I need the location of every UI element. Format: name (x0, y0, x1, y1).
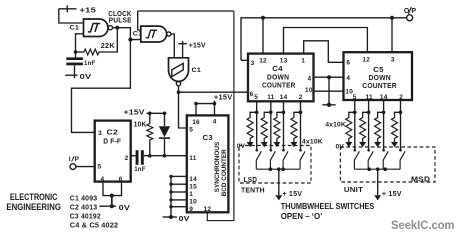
svg-text:+15V: +15V (214, 95, 233, 102)
svg-text:+15V: +15V (189, 43, 206, 50)
wire clock to gate2 (117, 28, 141, 40)
caption parts list (70, 193, 119, 229)
svg-text:2: 2 (299, 94, 303, 101)
ground 0V C3 bus (163, 214, 190, 223)
switch LSD 1 (255, 149, 261, 169)
label C1 gate1 (70, 25, 80, 32)
label C2 pins and name (98, 130, 129, 183)
resistor 10K C4 bank 2 (261, 112, 271, 140)
resistor 22K feedback (76, 30, 118, 55)
svg-text:D F-F: D F-F (103, 137, 121, 146)
node pin4 junction (327, 75, 331, 79)
wire cap node to C3 pin11 (150, 155, 187, 157)
node preset 10 (169, 198, 172, 201)
svg-text:C5: C5 (373, 67, 384, 74)
wire gate2 enable rail (138, 10, 234, 12)
node LSD rail a (269, 167, 273, 171)
wire gate3 output down (179, 86, 187, 128)
svg-text:3: 3 (391, 56, 395, 63)
svg-text:C2: C2 (107, 130, 119, 137)
ic C5 box (344, 52, 413, 100)
label 4x10K C5 bank (325, 122, 346, 129)
wire rail to C4 pin3 (241, 59, 248, 61)
caption thumbwheel switches (281, 201, 375, 221)
ground arrow C5 resistor 1 (345, 141, 352, 148)
svg-text:11: 11 (189, 155, 196, 162)
wire gate1 lower input (76, 34, 84, 52)
svg-text:C1: C1 (192, 67, 202, 74)
svg-text:2: 2 (125, 155, 129, 162)
ground 0V oscillator (65, 72, 91, 81)
label synchronous bcd counter vertical (214, 141, 228, 196)
svg-text:3: 3 (98, 130, 102, 137)
wire C4 bottom pin 4 down (300, 101, 302, 149)
dashed box LSD thumbwheel (239, 146, 311, 184)
node gate3 output junction (177, 90, 181, 94)
wire output rail (241, 18, 407, 61)
svg-text:3: 3 (251, 60, 255, 67)
svg-text:13: 13 (280, 57, 288, 64)
svg-text:MSD: MSD (411, 175, 431, 184)
node rail C5 pin3 (390, 16, 394, 20)
svg-text:P: P (75, 156, 80, 163)
node C5 pull junction 4 (399, 111, 403, 115)
svg-text:2: 2 (399, 94, 403, 101)
svg-text:0V: 0V (80, 72, 92, 81)
svg-text:COUNTER: COUNTER (262, 82, 296, 89)
node MSD rail a (367, 167, 371, 171)
wire C5 bottom pin 2 down (368, 100, 370, 150)
svg-text:C4 & C5 4022: C4 & C5 4022 (70, 221, 119, 230)
wire C4 bottom pin 3 down (283, 101, 285, 149)
power +15 supply terminal (59, 5, 96, 14)
svg-text:I: I (69, 156, 71, 163)
svg-text:1nF: 1nF (134, 166, 146, 173)
wire C3 preset bus (171, 176, 187, 217)
dashed box MSD thumbwheel (340, 147, 435, 182)
wire gate2 output to gate3 (171, 34, 174, 58)
capacitor C 1nF oscillator (66, 52, 83, 75)
node preset 15 (169, 183, 172, 186)
diode D1 (159, 113, 170, 155)
svg-text:4: 4 (346, 75, 350, 82)
wire C5 bottom pin 4 down (400, 100, 402, 150)
svg-text:0V: 0V (237, 143, 246, 150)
svg-text:14: 14 (280, 94, 288, 101)
node preset 9 (169, 205, 172, 208)
svg-text:OPEN – ‘O’: OPEN – ‘O’ (281, 211, 323, 221)
resistor 10K C4 bank 1 (247, 112, 257, 140)
svg-text:6: 6 (250, 91, 254, 98)
label 22K (101, 43, 115, 50)
node C5 pull junction 1 (353, 111, 357, 115)
wire C4 pin12 up (262, 18, 264, 54)
wire C5 bottom pin 1 down (354, 100, 356, 150)
node C4 pull junction 2 (269, 111, 273, 115)
node 10K top (148, 112, 152, 116)
svg-text:P: P (411, 8, 416, 15)
svg-text:ELECTRONIC: ELECTRONIC (10, 192, 58, 202)
label CLOCK PULSE (108, 9, 132, 25)
wire C5 bottom pin 3 down (383, 100, 385, 150)
wire rail to gate2 upper input (138, 11, 141, 30)
svg-text:TENTH: TENTH (241, 185, 265, 194)
svg-text:11: 11 (267, 94, 274, 101)
svg-text:C1: C1 (133, 31, 143, 38)
switch MSD 1 (354, 149, 360, 169)
switch LSD 4 (299, 149, 305, 169)
resistor 10K C5 bank 2 (360, 112, 369, 140)
svg-text:22K: 22K (101, 43, 115, 50)
svg-text:C2 4013: C2 4013 (70, 203, 98, 212)
svg-text:12: 12 (259, 57, 267, 64)
svg-text:UNIT: UNIT (344, 185, 363, 194)
wire LSD common rail (256, 168, 300, 170)
svg-text:THUMBWHEEL SWITCHES: THUMBWHEEL SWITCHES (281, 201, 375, 211)
node diode top (163, 112, 167, 116)
label TENTH (241, 185, 265, 194)
svg-text:DOWN: DOWN (267, 74, 289, 81)
label 1nF oscillator (84, 60, 96, 67)
switch MSD 2 (367, 149, 373, 169)
node rail C4 pin12 (261, 16, 265, 20)
svg-text:1nF: 1nF (84, 60, 96, 67)
svg-text:C1: C1 (70, 25, 80, 32)
svg-text:12: 12 (362, 56, 370, 63)
ground arrow C5 resistor 4 (391, 141, 398, 148)
wire C5 pin3 up (391, 18, 393, 52)
svg-text:SeekIC.com: SeekIC.com (391, 218, 455, 232)
resistor 10K (147, 113, 153, 155)
svg-text:+ 15V: + 15V (282, 189, 302, 198)
svg-text:C1 4093: C1 4093 (70, 193, 98, 202)
node C5 pull junction 3 (382, 111, 386, 115)
node C4 pull junction 4 (299, 111, 303, 115)
terminal O/P output (404, 7, 417, 21)
power +15V tick gate3 (178, 41, 206, 58)
ground arrow C4 resistor 3 (273, 141, 280, 148)
svg-text:5: 5 (98, 164, 102, 171)
nand gate U1a (C1 4093 schmitt) (84, 19, 113, 37)
node C2 ground junction (110, 194, 114, 198)
label 0V C5 bank (336, 143, 345, 150)
node gate2 input junction (128, 38, 132, 42)
label 10K (134, 121, 147, 128)
svg-text:11: 11 (366, 94, 373, 101)
wire C3 carry pin12 feedback (207, 11, 234, 221)
label C1 gate2 (133, 31, 143, 38)
resistor 10K C5 bank 3 (375, 112, 384, 140)
node MSD rail c (383, 167, 387, 171)
resistor 10K C4 bank 4 (291, 112, 301, 140)
svg-text:C3 40192: C3 40192 (70, 211, 101, 220)
label 0V C4 bank (237, 143, 246, 150)
wire I/P to C2 pin5 (76, 166, 95, 168)
ground arrow C4 resistor 4 (290, 141, 297, 148)
wire C4 pin4 to C5 pin4 (314, 76, 344, 78)
node clock pulse (115, 26, 119, 30)
wire +15 to gate input (59, 9, 84, 23)
resistor 10K C5 bank 1 (346, 112, 355, 140)
node MSD rail b (376, 167, 380, 171)
switch MSD 3 (382, 149, 388, 169)
capacitor 1nF at C2 pin2 (131, 150, 150, 165)
svg-text:10: 10 (189, 199, 197, 206)
svg-text:+ 15V: + 15V (382, 189, 402, 198)
svg-text:16: 16 (192, 119, 200, 126)
wire C4 pin1 to C5 pin6 (304, 41, 344, 63)
label C5 pins and name (345, 56, 403, 101)
switch LSD 3 (282, 149, 288, 169)
wire clock to C2 pin3 (72, 40, 131, 133)
node 10K bottom (148, 154, 152, 158)
nand gate U1c (C1) vertical (169, 58, 189, 86)
power +15V LSD (275, 169, 302, 200)
svg-text:6: 6 (119, 176, 123, 183)
nand gate U1b (C1) (141, 26, 171, 42)
resistor 10K C5 bank 4 (392, 112, 401, 140)
svg-text:+15: +15 (80, 5, 97, 14)
svg-text:C4: C4 (272, 66, 283, 73)
svg-text:10K: 10K (134, 121, 147, 128)
wire C4 pin10 to C5 pin10 (314, 90, 344, 92)
ic C3 box (187, 115, 229, 212)
svg-text:15: 15 (189, 184, 197, 191)
ground arrow C4 resistor 1 (247, 141, 254, 148)
ground 0V below C2 (99, 203, 130, 212)
ic C2 D-FF box (95, 121, 131, 182)
label LSD (244, 175, 258, 184)
svg-text:4x10K: 4x10K (325, 122, 346, 129)
wire +15V horizontal (147, 112, 165, 114)
svg-text:5: 5 (254, 94, 258, 101)
ground arrow C5 resistor 2 (359, 141, 366, 148)
wire C2 pins 4 6 to ground (103, 182, 122, 206)
label MSD (411, 175, 431, 184)
terminal tick mid (322, 103, 335, 107)
wire pin4 junction down (328, 77, 330, 105)
svg-text:1: 1 (189, 191, 193, 198)
svg-text:C3: C3 (203, 135, 214, 142)
watermark SeekIC.com (391, 218, 455, 232)
label 4x10K C4 bank (302, 138, 323, 145)
label 1nF at C2 (134, 166, 146, 173)
ground arrow C4 resistor 2 (261, 141, 268, 148)
svg-text:PULSE: PULSE (109, 16, 132, 25)
svg-text:4: 4 (213, 118, 217, 125)
svg-text:14: 14 (189, 176, 197, 183)
svg-text:DOWN: DOWN (369, 75, 391, 82)
node C5 pull junction 2 (367, 111, 371, 115)
svg-text:5: 5 (189, 126, 193, 133)
svg-text:LSD: LSD (244, 175, 258, 184)
node preset 14 (169, 175, 172, 178)
ground arrow C5 resistor 3 (374, 141, 381, 148)
label C4 pins and name (250, 57, 313, 101)
node C4 pull junction 1 (255, 111, 259, 115)
svg-text:ENGINEERING: ENGINEERING (6, 202, 61, 212)
svg-text:SYNCHRONOUS: SYNCHRONOUS (214, 141, 221, 192)
caption electronic engineering (6, 192, 61, 212)
svg-text:9: 9 (189, 206, 193, 213)
node preset 1 (169, 190, 172, 193)
switch MSD 4 (399, 149, 405, 169)
svg-text:BCD COUNTER: BCD COUNTER (221, 149, 228, 196)
svg-text:0V: 0V (119, 203, 130, 212)
node LSD rail b (277, 167, 281, 171)
wire MSD common rail (354, 168, 400, 170)
svg-text:4x10K: 4x10K (302, 138, 323, 145)
wire gate1 output (113, 27, 118, 29)
svg-text:COUNTER: COUNTER (362, 83, 397, 90)
node diode bottom (163, 154, 167, 158)
svg-text:10: 10 (305, 87, 313, 94)
node RC junction (74, 50, 78, 54)
svg-text:12: 12 (204, 206, 212, 213)
wire C4 bottom pin 1 down (256, 101, 258, 149)
wire clock line to C4 pin6 (179, 91, 249, 93)
label C3 pins and name (189, 118, 217, 212)
power +15V label C2 area (124, 109, 145, 116)
ic C4 box (248, 54, 314, 102)
wire C4 bottom pin 2 down (270, 101, 272, 149)
svg-text:6: 6 (346, 60, 350, 67)
svg-text:1: 1 (301, 57, 305, 64)
node LSD rail c (281, 167, 285, 171)
label C1 gate3 (192, 67, 202, 74)
wire C4 pin13 to C5 pin12 (284, 28, 368, 54)
terminal I/P input (69, 156, 80, 170)
svg-text:+15V: +15V (124, 109, 145, 116)
resistor 10K C4 bank 3 (274, 112, 284, 140)
svg-text:4: 4 (308, 76, 312, 83)
node C4 pull junction 3 (282, 111, 286, 115)
label UNIT (344, 185, 363, 194)
power +15V bar C3 (194, 95, 232, 116)
switch LSD 2 (270, 149, 276, 169)
power +15V MSD (374, 169, 402, 200)
svg-text:0V: 0V (179, 214, 190, 223)
